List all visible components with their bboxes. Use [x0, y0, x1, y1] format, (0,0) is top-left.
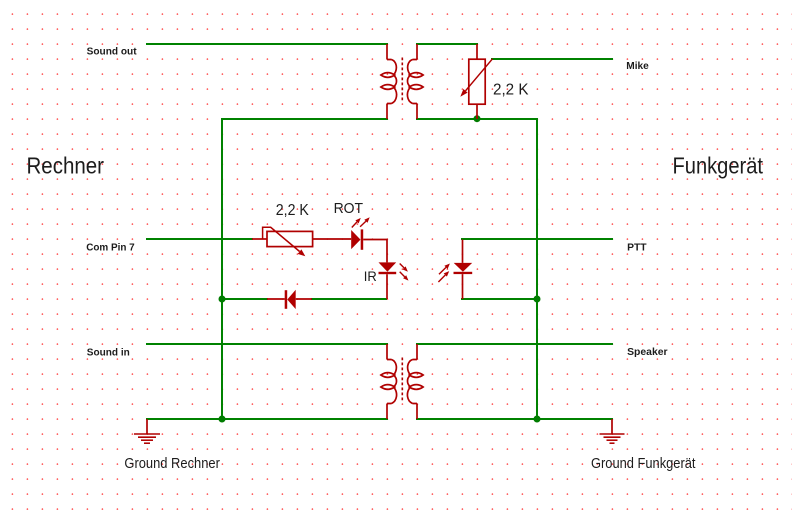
transformer T2 left eye 2 — [381, 385, 395, 390]
ground Rechner symbol — [146, 419, 148, 434]
transformer T1 left winding humps — [392, 60, 397, 104]
photodiode pin top (red) — [462, 240, 464, 263]
junction left rail ground — [219, 416, 226, 423]
transformer T1 left eye 2 — [381, 85, 395, 90]
transformer T1 left eye 1 — [381, 73, 395, 78]
photodiode triangle — [454, 263, 473, 272]
potentiometer 2,2K Mike body — [469, 59, 485, 104]
wire Mike — [492, 58, 612, 60]
junction left rail diode row — [219, 296, 226, 303]
wire photodiode to right rail — [462, 298, 537, 300]
photodiode incoming light arrows — [438, 264, 450, 283]
transformer T1 core — [401, 58, 403, 103]
wire Sound in — [147, 343, 387, 345]
wire bottom left — [147, 418, 387, 420]
transformer T2 right eye 1 — [409, 373, 423, 378]
junction pot bottom — [474, 115, 481, 122]
potentiometer 2,2K Mike pin bottom — [476, 104, 478, 119]
transformer T2 right pins — [413, 344, 418, 419]
LED IR pin bottom (red) — [386, 274, 388, 299]
svg-text:Funkgerät: Funkgerät — [673, 152, 764, 178]
diode D1 triangle — [287, 290, 295, 309]
diode D1 cathode bar — [285, 290, 288, 309]
potentiometer 2,2K Com pin left — [252, 238, 267, 240]
LED IR emission arrows — [400, 264, 409, 281]
wire Sound out — [147, 43, 387, 45]
transformer T1 right eye 2 — [409, 85, 423, 90]
potentiometer 2,2K Com wiper arrow — [263, 227, 300, 251]
transformer T2 right winding humps — [407, 360, 412, 404]
svg-text:Ground Rechner: Ground Rechner — [124, 455, 219, 472]
svg-text:Com Pin 7: Com Pin 7 — [86, 241, 135, 253]
photodiode pin bottom (red) — [462, 274, 464, 299]
svg-text:Speaker: Speaker — [627, 346, 668, 358]
LED ROT triangle — [351, 230, 360, 249]
ground Funkgeraet symbol — [611, 419, 613, 434]
junction right rail ground — [534, 416, 541, 423]
svg-text:Sound out: Sound out — [87, 45, 137, 57]
wire LED ROT to LED IR (red) — [363, 240, 387, 263]
svg-text:PTT: PTT — [627, 241, 647, 253]
wire transformer to pot top — [417, 43, 477, 45]
svg-text:Mike: Mike — [626, 60, 649, 72]
wire pot to LED ROT (red) — [313, 238, 352, 240]
wire Speaker — [417, 343, 612, 345]
wire left rail — [221, 119, 223, 419]
wire transformer bottom left — [222, 118, 387, 120]
svg-text:IR: IR — [364, 269, 377, 284]
LED IR triangle — [379, 262, 397, 271]
wire Com Pin 7 — [147, 238, 252, 240]
transformer T1 right eye 1 — [409, 73, 423, 78]
svg-text:Ground Funkgerät: Ground Funkgerät — [591, 455, 696, 472]
svg-text:ROT: ROT — [334, 201, 364, 217]
wire diode row right — [312, 298, 386, 300]
wire diode row left — [222, 298, 267, 300]
potentiometer 2,2K Mike wiper arrow — [466, 59, 493, 91]
potentiometer 2,2K Mike pin top — [476, 44, 478, 59]
transformer T2 core — [401, 358, 403, 403]
wire bottom right — [417, 418, 612, 420]
svg-text:2,2 K: 2,2 K — [276, 202, 309, 219]
wire transformer bottom right — [417, 118, 537, 120]
transformer T2 left winding humps — [392, 360, 397, 404]
svg-text:Rechner: Rechner — [27, 152, 105, 178]
photodiode cathode bar — [454, 272, 473, 274]
svg-text:Sound in: Sound in — [87, 346, 130, 358]
wire PTT — [462, 238, 612, 240]
LED IR cathode bar — [379, 272, 397, 274]
svg-text:2,2 K: 2,2 K — [493, 82, 529, 99]
diode D1 pin right — [296, 298, 312, 300]
LED ROT emission arrows — [352, 217, 370, 227]
transformer T1 right pins — [413, 44, 418, 119]
wire right rail — [536, 119, 538, 419]
transformer T1 left pins — [387, 44, 392, 119]
LED ROT cathode bar — [361, 229, 364, 249]
diode D1 reverse pin left — [267, 298, 285, 300]
transformer T2 right eye 2 — [409, 385, 423, 390]
junction right rail photodiode row — [534, 296, 541, 303]
transformer T1 right winding humps — [407, 60, 412, 104]
potentiometer 2,2K Com body — [267, 231, 313, 246]
transformer T2 left pins — [387, 344, 392, 419]
transformer T2 left eye 1 — [381, 373, 395, 378]
